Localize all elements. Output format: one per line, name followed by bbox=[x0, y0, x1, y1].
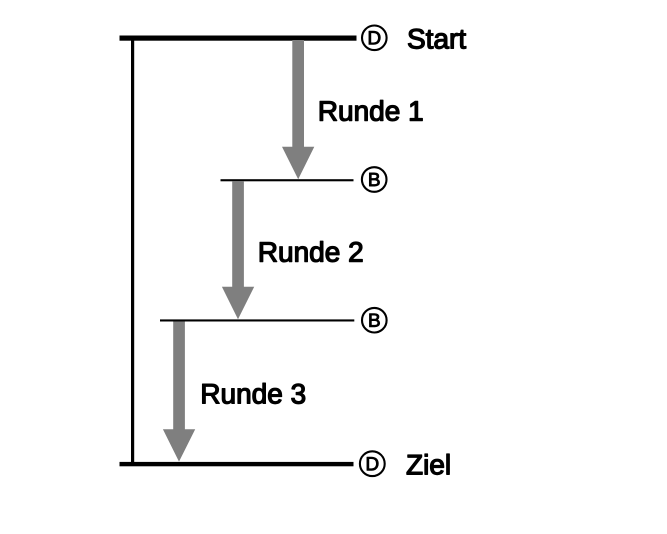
wire: left vertical course line bbox=[131, 38, 134, 465]
node B (lap 1) bbox=[362, 167, 387, 192]
arrow Runde 2 bbox=[222, 181, 254, 319]
arrow Runde 3 bbox=[163, 322, 195, 462]
label Start bbox=[408, 29, 466, 49]
arrow Runde 1 bbox=[282, 40, 314, 179]
label Ziel bbox=[407, 454, 449, 475]
node D (Ziel) bbox=[360, 451, 385, 476]
node B (lap 2) bbox=[362, 308, 387, 333]
node D (Start) bbox=[362, 26, 387, 51]
label Runde 1 bbox=[320, 100, 422, 121]
wire: lap line 2 bbox=[160, 319, 354, 321]
label Runde 2 bbox=[260, 241, 362, 262]
wire: top start line bbox=[120, 36, 357, 41]
wire: bottom finish line bbox=[120, 462, 354, 466]
label Runde 3 bbox=[203, 383, 305, 404]
wire: lap line 1 bbox=[221, 179, 354, 181]
